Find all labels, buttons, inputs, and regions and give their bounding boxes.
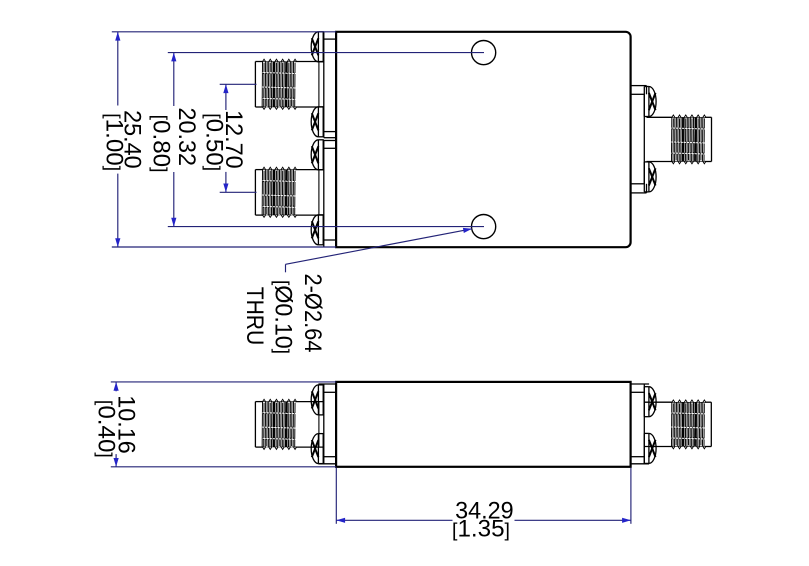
top view: flange screw (left, 4th) bbox=[311, 215, 324, 245]
svg-text:[0.40]: [0.40] bbox=[92, 400, 119, 458]
svg-text:THRU: THRU bbox=[241, 287, 268, 346]
svg-text:[Ø0.10]: [Ø0.10] bbox=[270, 280, 297, 354]
dimension 34.29 [1.35] extension lines bbox=[336, 468, 631, 524]
top view: flange screw (right, lower) bbox=[644, 162, 656, 192]
dimension text [0.40] bbox=[92, 400, 119, 458]
top view: SMA connector J1 (right) bbox=[647, 115, 712, 164]
dimension 20.32 [0.80] extension lines bbox=[168, 53, 484, 227]
top view: divider body outline bbox=[336, 32, 630, 247]
svg-text:20.32: 20.32 bbox=[173, 108, 200, 167]
dimension 12.70 [0.50] dimension line bbox=[223, 84, 228, 192]
dimension 25.40 [1.00] dimension line bbox=[115, 32, 120, 247]
dimension 10.16 [0.40] extension lines bbox=[111, 382, 336, 467]
svg-text:2-Ø2.64: 2-Ø2.64 bbox=[299, 274, 326, 353]
leader line to lower hole bbox=[286, 228, 473, 272]
top view: left flange plate (lower connector) bbox=[324, 141, 336, 248]
bottom view: SMA connector (left) bbox=[255, 399, 323, 449]
dimension 10.16 [0.40] dimension line bbox=[114, 382, 119, 467]
bottom view: SMA connector (right) bbox=[644, 400, 711, 449]
leader note text 2-D2.64 bbox=[299, 274, 326, 353]
bottom view: divider body outline bbox=[336, 382, 630, 467]
svg-text:[1.00]: [1.00] bbox=[100, 113, 127, 171]
bottom view: flange screw (right lower) bbox=[644, 433, 656, 463]
bottom view: flange screw (left lower) bbox=[311, 434, 324, 464]
top view: flange screw (right, upper) bbox=[644, 87, 656, 117]
top view: SMA connector J2 (upper left) bbox=[255, 59, 323, 109]
dimension text [1.00] bbox=[100, 113, 127, 171]
dimension text 10.16 bbox=[113, 395, 140, 454]
leader note text [D0.10] bbox=[270, 280, 297, 354]
dimension 25.40 [1.00] extension lines bbox=[112, 32, 336, 247]
dimension 34.29 [1.35] dimension line bbox=[336, 518, 631, 523]
top view: flange screw (left, 2nd) bbox=[311, 107, 324, 137]
top view: right flange plate bbox=[631, 86, 647, 193]
dimension text [0.50] bbox=[201, 113, 228, 171]
bottom view: right flange plate bbox=[631, 384, 650, 464]
top view: flange screw (left, 1st) bbox=[311, 32, 324, 62]
dimension text 12.70 bbox=[220, 110, 247, 169]
bottom view: left flange plate bbox=[318, 384, 336, 464]
dimension 12.70 [0.50] extension lines bbox=[220, 84, 257, 192]
top view: SMA connector J3 (lower left) bbox=[255, 167, 323, 217]
bottom view: flange screw (left upper) bbox=[311, 385, 324, 415]
bottom view: flange screw (right upper) bbox=[644, 387, 656, 417]
top view: flange screw (left, 3rd) bbox=[311, 140, 324, 170]
dimension text 25.40 bbox=[118, 110, 145, 168]
dimension text 20.32 bbox=[173, 108, 200, 167]
dimension text [1.35] bbox=[452, 516, 510, 543]
top view: mounting hole (upper), 2.64 dia thru bbox=[472, 41, 496, 65]
svg-text:[0.50]: [0.50] bbox=[201, 113, 228, 171]
dimension 20.32 [0.80] dimension line bbox=[171, 53, 176, 227]
svg-text:[1.35]: [1.35] bbox=[452, 516, 510, 543]
top view: left flange plate (upper connector) bbox=[324, 32, 336, 138]
svg-text:[0.80]: [0.80] bbox=[147, 115, 174, 173]
dimension text 34.29 bbox=[455, 498, 514, 525]
dimension text [0.80] bbox=[147, 115, 174, 173]
top view: mounting hole (lower), 2.64 dia thru bbox=[472, 215, 496, 239]
leader note text THRU bbox=[241, 287, 268, 346]
